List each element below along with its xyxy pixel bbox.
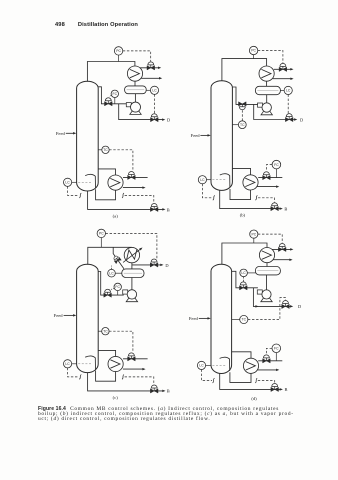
reboiler feed line (b) [230,189,251,200]
overhead vapor line (d) [222,243,267,264]
steam line (a) [123,176,148,178]
steam valve (b) [263,172,271,180]
controller TC reflux (b) [232,124,238,126]
PC signal dashed (c) [106,233,157,258]
steam valve (a) [128,172,136,180]
reflux pump (d) [257,290,262,294]
controller LC bottom (a) [72,181,77,183]
svg-text:LC: LC [65,181,70,185]
condensate line (b) [266,81,268,86]
vent control valve (b) [279,63,287,71]
svg-text:TC: TC [240,123,245,127]
svg-text:FC: FC [115,285,120,289]
bottoms line (a) [88,191,164,209]
TC signal dashed (a) [109,150,133,171]
svg-text:PC: PC [251,232,256,236]
LC signal dashed (d) [243,277,245,282]
reboiler outlet arrow (a) [123,187,144,189]
svg-text:PC: PC [116,49,121,53]
controller LC drum (c) [115,272,122,274]
reboiler feed line (d) [230,372,251,382]
condenser (a) [127,66,142,81]
LC signal dashed (b) [287,95,289,114]
controller FC steam (d) [275,353,277,361]
svg-text:FC: FC [113,92,118,96]
svg-text:B: B [284,206,287,211]
overhead vapor line (b) [222,59,267,81]
svg-text:B: B [167,207,170,212]
reflux valve (a) [105,98,113,106]
svg-text:(d): (d) [251,396,257,401]
distillation column (c) [77,264,99,372]
LC signal dashed (c) [111,266,113,270]
distillate line (b) [254,104,296,119]
svg-text:D: D [300,117,303,122]
reboiler feed line (c) [96,371,116,382]
reflux pump (b) [258,103,263,107]
bottoms valve (b) [271,203,279,211]
svg-text:(a): (a) [113,213,119,218]
controller LC bottom (d) [206,364,211,366]
reboiler feed line (a) [96,189,116,200]
controller LC drum (d) [247,272,255,274]
pump suction line (c) [131,278,133,290]
controller FC reflux (a) [114,98,116,104]
reboiler (b) [243,175,258,190]
steam line (b) [258,177,282,179]
svg-text:D: D [298,304,301,309]
reboiler vapor return (d) [232,352,251,358]
PC signal dashed (a) [123,51,151,62]
svg-text:B: B [285,387,288,392]
controller LC drum (a) [146,89,150,91]
steam line (c) [123,358,148,360]
TC signal dashed (d) [248,298,286,320]
controller LC drum (b) [280,89,284,91]
distillate line (a) [119,104,164,120]
overhead vapor line (c) [88,247,132,264]
svg-text:LC: LC [286,89,291,93]
distillate valve (b) [285,114,293,122]
distillation column (b) [211,81,232,191]
distillation column (d) [211,264,232,373]
reflux line (c) [98,272,124,296]
reflux pump (c) [123,290,128,294]
svg-text:LC: LC [199,364,204,368]
bottoms line (b) [220,190,281,208]
controller TC (c) [98,330,102,332]
svg-text:FC: FC [274,347,279,351]
controller FC reflux (c) [117,291,119,296]
LC signal dashed to bottoms valve (d) [202,370,213,381]
PC signal dashed (d) [258,234,282,243]
overhead vapor line (a) [87,62,134,82]
vent line (b) [274,68,292,70]
condenser drain valve (c) [112,255,121,264]
svg-text:Feed: Feed [191,133,201,138]
LC signal dashed to bottoms valve (a) [68,186,79,195]
column internal baffle (b) [220,174,230,188]
svg-text:PC: PC [251,49,256,53]
reflux line (a) [98,87,126,104]
controller PC (a) [118,55,120,61]
controller TC (a) [98,149,102,151]
distillation column (a) [77,81,99,191]
reboiler (c) [108,356,123,371]
controller PC (d) [253,238,255,243]
TC signal dashed (c) [109,331,133,352]
page header [55,22,138,28]
condensate line (a) [134,81,136,86]
svg-text:B: B [167,389,170,394]
distillate valve (a) [151,114,159,122]
controller PC (c) [100,238,102,248]
vapor product line (c) [132,264,162,266]
bottoms valve (a) [150,204,158,212]
condenser (c) [124,247,139,262]
svg-text:TC: TC [242,318,247,322]
svg-text:Feed: Feed [56,131,66,136]
svg-text:LC: LC [200,178,205,182]
condenser drain line (c) [113,247,124,269]
reflux drum (c) [122,269,144,278]
reboiler (d) [243,358,258,373]
figure caption [38,407,294,422]
condensate line (d) [266,263,268,267]
LC signal dashed (a) [154,94,156,113]
condenser outlet arrow (b) [273,78,292,80]
TC signal dashed (b) [241,110,243,121]
controller TC (d) [232,319,240,321]
column internal baffle (a) [85,174,95,188]
bottoms valve (d) [271,384,279,392]
controller LC bottom (c) [72,363,77,365]
condensate line (c) [131,263,133,269]
vapor product valve (c) [150,259,158,267]
reboiler vapor return (a) [98,169,115,175]
svg-text:FC: FC [274,163,279,167]
svg-text:(b): (b) [240,212,246,217]
controller PC (b) [253,55,255,59]
reboiler vapor return (c) [98,350,115,356]
svg-text:(c): (c) [113,395,119,400]
reflux line (b) [232,87,258,104]
svg-text:D: D [165,263,168,268]
condenser (b) [259,66,274,81]
PC signal dashed (b) [258,51,283,64]
svg-text:D: D [167,117,170,122]
svg-text:LC: LC [241,271,246,275]
svg-text:Feed: Feed [54,313,64,318]
controller LC bottom (b) [207,179,212,181]
svg-text:LC: LC [109,271,114,275]
distillate line (d) [253,288,291,307]
vent control valve (a) [147,62,155,70]
bottoms line (d) [220,373,282,389]
vent line (a) [140,67,160,69]
svg-text:LC: LC [65,362,70,366]
reboiler vapor return (b) [232,168,250,174]
reflux line (d) [232,271,258,288]
svg-text:Feed: Feed [189,316,199,321]
condenser outlet arrow (d) [273,259,291,261]
steam line (d) [258,360,282,362]
column internal baffle (d) [220,357,230,371]
bottoms valve (c) [150,385,158,393]
reflux drum (a) [125,86,147,94]
steam valve (c) [128,353,136,361]
reflux valve (d) [240,282,248,290]
reboiler outlet arrow (b) [257,186,278,188]
svg-text:LC: LC [152,89,157,93]
LC signal dashed to bottoms valve (b) [202,184,212,198]
LC signal dashed to bottoms valve (c) [68,368,79,377]
vent control valve (d) [278,244,286,252]
reflux valve (b) [239,102,247,110]
reflux pump (a) [126,103,131,107]
steam valve (d) [263,355,271,363]
controller FC steam (b) [275,169,277,178]
reflux drum (b) [255,86,280,94]
reboiler outlet arrow (d) [257,369,277,371]
svg-text:TC: TC [103,148,108,152]
svg-text:TC: TC [103,329,108,333]
svg-text:PC: PC [99,232,104,236]
pump suction line (b) [266,95,268,103]
reboiler (a) [108,175,123,190]
vent line (d) [272,248,292,250]
pump suction line (d) [266,275,268,290]
FC signal dashed (b) [266,165,272,172]
condenser outlet arrow (a) [141,77,160,79]
FC signal dashed (d) [266,348,272,354]
distillate valve (d) [282,301,290,309]
pump suction line (a) [134,94,136,103]
bottoms line (c) [88,373,164,391]
reflux drum (d) [255,267,280,275]
reboiler outlet arrow (c) [123,368,144,370]
column internal baffle (c) [85,356,95,370]
condenser (d) [259,248,274,263]
reflux valve (c) [104,289,112,297]
